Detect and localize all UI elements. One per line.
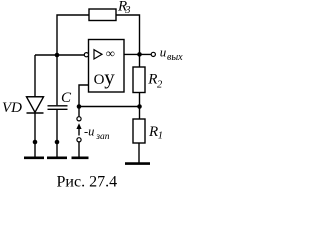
svg-text:О: О [94,72,105,88]
svg-text:C: C [61,90,72,106]
svg-text:1: 1 [158,131,163,142]
svg-text:-u: -u [84,125,94,139]
svg-text:вых: вых [167,52,183,63]
svg-text:3: 3 [124,5,130,16]
svg-text:VD: VD [2,100,22,116]
svg-text:u: u [160,45,167,60]
svg-text:Рис. 27.4: Рис. 27.4 [57,174,118,191]
svg-text:2: 2 [157,79,163,90]
svg-text:зап: зап [95,132,109,142]
svg-text:R: R [147,72,157,88]
svg-text:∞: ∞ [106,46,115,60]
svg-text:R: R [148,124,158,140]
svg-text:у: у [104,65,115,89]
